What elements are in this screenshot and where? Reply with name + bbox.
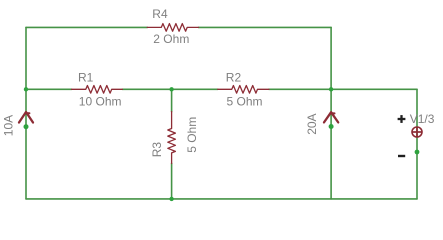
wire middle horizontal right of R2 (269, 88, 417, 90)
node dot: I2 terminal (329, 124, 334, 129)
node dot: R3 top junction (169, 87, 173, 91)
svg-text:10A: 10A (2, 115, 16, 136)
svg-text:2 Ohm: 2 Ohm (153, 32, 189, 46)
svg-text:20A: 20A (305, 113, 319, 134)
svg-text:10 Ohm: 10 Ohm (79, 95, 122, 109)
voltmeter probe V1/3 circle (412, 127, 423, 138)
resistor R3 (168, 112, 176, 164)
node dot: I1 terminal (24, 124, 29, 129)
resistor R4 (147, 24, 198, 32)
resistor R2 (218, 86, 269, 94)
node dot: R3 bottom junction (169, 197, 173, 201)
wire left vertical (25, 27, 27, 199)
svg-text:V1/3: V1/3 (410, 112, 435, 126)
wire bottom horizontal (26, 198, 417, 200)
svg-text:5 Ohm: 5 Ohm (227, 94, 263, 108)
probe plus sign (398, 115, 406, 123)
wire R3 vertical below resistor (171, 163, 173, 199)
svg-text:R1: R1 (78, 71, 94, 85)
wire top horizontal right of R4 (198, 26, 331, 28)
svg-text:R4: R4 (152, 7, 168, 21)
current source I1 arrow (10A) (19, 112, 33, 123)
wire middle horizontal left of R1 (26, 88, 72, 90)
wire middle-right vertical (330, 27, 332, 199)
svg-text:5 Ohm: 5 Ohm (185, 117, 199, 153)
node dot: probe terminal (415, 150, 420, 155)
node dot: mid vertical junction (329, 87, 333, 91)
probe minus sign (398, 155, 405, 157)
resistor R1 (72, 86, 123, 94)
node dot: left middle junction (24, 87, 28, 91)
wire R3 vertical above resistor (171, 89, 173, 112)
wire top horizontal left of R4 (26, 26, 147, 28)
svg-text:R2: R2 (226, 70, 242, 84)
current source I2 arrow (20A) (324, 112, 338, 122)
wire middle horizontal between R1 and R2 (122, 88, 218, 90)
wire probe vertical (416, 89, 418, 199)
svg-text:R3: R3 (150, 142, 164, 158)
